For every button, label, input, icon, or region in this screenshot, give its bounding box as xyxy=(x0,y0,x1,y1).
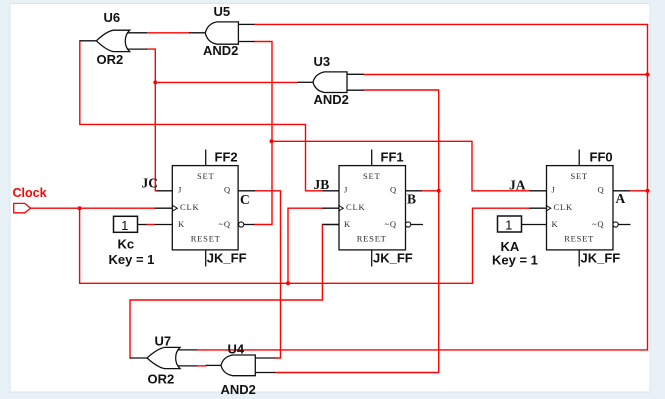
svg-text:U7: U7 xyxy=(155,334,172,349)
wire U6 input B down to junction xyxy=(147,49,157,191)
svg-text:Kc: Kc xyxy=(118,237,135,252)
svg-text:JC: JC xyxy=(142,176,159,191)
flip-flop FF2 (JK_FF) xyxy=(138,150,256,267)
or-gate U7 (mirrored, output left) xyxy=(130,347,197,368)
and-gate U4 (mirrored, output left) xyxy=(206,355,275,376)
svg-text:SET: SET xyxy=(570,171,588,181)
svg-text:~Q: ~Q xyxy=(592,219,604,229)
wire net A right rail: U5 input A along top, down right side, to U7 input A xyxy=(197,24,648,350)
wire U5 output to U6 input A xyxy=(147,32,189,34)
svg-text:OR2: OR2 xyxy=(148,372,175,387)
svg-text:Q: Q xyxy=(598,184,605,194)
svg-text:Q: Q xyxy=(390,184,397,194)
svg-text:Q: Q xyxy=(224,184,231,194)
wire FF2 ~Q up to U5 input B xyxy=(254,42,272,225)
wire U3 input A to right rail xyxy=(364,74,648,76)
wire JA: FF2 ~Q tap to FF0 J xyxy=(272,141,530,191)
svg-text:K: K xyxy=(344,219,351,229)
svg-text:1: 1 xyxy=(121,218,128,233)
svg-text:RESET: RESET xyxy=(564,233,594,243)
wire U4 output to U7 input B xyxy=(197,365,206,367)
svg-text:Clock: Clock xyxy=(13,186,47,200)
svg-text:U4: U4 xyxy=(228,342,245,357)
wire clock riser to FF1 CLK xyxy=(288,208,323,283)
svg-text:~Q: ~Q xyxy=(385,219,397,229)
wire U3 output to junction (JC) xyxy=(155,81,297,83)
svg-text:CLK: CLK xyxy=(346,202,365,212)
svg-text:RESET: RESET xyxy=(357,233,387,243)
svg-text:JB: JB xyxy=(314,177,330,192)
svg-text:JA: JA xyxy=(509,178,526,193)
flip-flop FF1 (JK_FF) xyxy=(323,150,424,267)
digital constant source KA (value 1) xyxy=(498,216,522,232)
svg-text:J: J xyxy=(344,184,348,194)
wire U7 output to FF1 K xyxy=(130,225,339,359)
svg-text:FF2: FF2 xyxy=(215,150,238,165)
svg-text:J: J xyxy=(552,184,556,194)
svg-text:CLK: CLK xyxy=(554,202,573,212)
svg-text:SET: SET xyxy=(363,171,381,181)
or-gate U6 (mirrored, output left) xyxy=(80,30,147,51)
wire clock: connector to FF2 CLK xyxy=(31,207,156,209)
svg-text:U6: U6 xyxy=(104,10,121,25)
svg-text:1: 1 xyxy=(505,218,512,233)
svg-text:Key = 1: Key = 1 xyxy=(109,252,155,267)
junction net A at FF0 Q xyxy=(646,189,650,193)
svg-text:B: B xyxy=(407,192,416,207)
svg-text:AND2: AND2 xyxy=(314,92,349,107)
wire FF2 Q down to U4 input A xyxy=(255,191,281,358)
svg-text:AND2: AND2 xyxy=(221,382,256,397)
and-gate U5 (mirrored, output left) xyxy=(189,22,255,44)
svg-text:AND2: AND2 xyxy=(203,43,238,58)
and-gate U3 (mirrored, output left) xyxy=(298,72,364,93)
svg-text:OR2: OR2 xyxy=(97,52,124,67)
flip-flop FF0 (JK_FF) xyxy=(522,150,631,267)
wire clock riser to FF0 CLK xyxy=(473,208,530,283)
wire U6 output to FF1 J (JB) xyxy=(80,41,323,191)
junction net B at FF1 Q xyxy=(437,189,441,193)
wire Kc source to FF2 K xyxy=(147,224,155,226)
svg-text:SET: SET xyxy=(197,171,215,181)
svg-text:JK_FF: JK_FF xyxy=(373,251,413,266)
junction FF2 ~Q tap to JA xyxy=(270,139,274,143)
svg-text:Key = 1: Key = 1 xyxy=(492,253,538,268)
svg-text:~Q: ~Q xyxy=(219,219,231,229)
junction JC node xyxy=(153,80,157,84)
svg-text:JK_FF: JK_FF xyxy=(207,251,247,266)
wire FF1 Q net B: up to U3 input B and down to U4 input B xyxy=(275,90,439,373)
wire FF1 Q stub to junction xyxy=(422,190,439,192)
svg-text:C: C xyxy=(240,192,250,207)
svg-text:FF0: FF0 xyxy=(590,150,613,165)
svg-text:JK_FF: JK_FF xyxy=(581,251,621,266)
svg-text:U5: U5 xyxy=(214,4,231,19)
svg-text:A: A xyxy=(616,191,626,206)
svg-text:U3: U3 xyxy=(314,54,331,69)
svg-text:J: J xyxy=(178,184,182,194)
svg-text:CLK: CLK xyxy=(180,202,199,212)
input connector Clock xyxy=(14,203,31,212)
wire FF0 Q to right rail xyxy=(630,190,648,192)
digital constant source Kc (value 1) xyxy=(114,216,138,232)
svg-text:K: K xyxy=(552,219,559,229)
junction clock at FF1 riser xyxy=(286,281,290,285)
svg-text:RESET: RESET xyxy=(191,233,221,243)
wire clock vertical drop and bottom distribution run xyxy=(80,208,473,283)
svg-text:FF1: FF1 xyxy=(381,150,404,165)
svg-text:K: K xyxy=(178,219,185,229)
junction clock at FF2 tap xyxy=(78,206,82,210)
junction net A at U3 input xyxy=(646,73,650,77)
